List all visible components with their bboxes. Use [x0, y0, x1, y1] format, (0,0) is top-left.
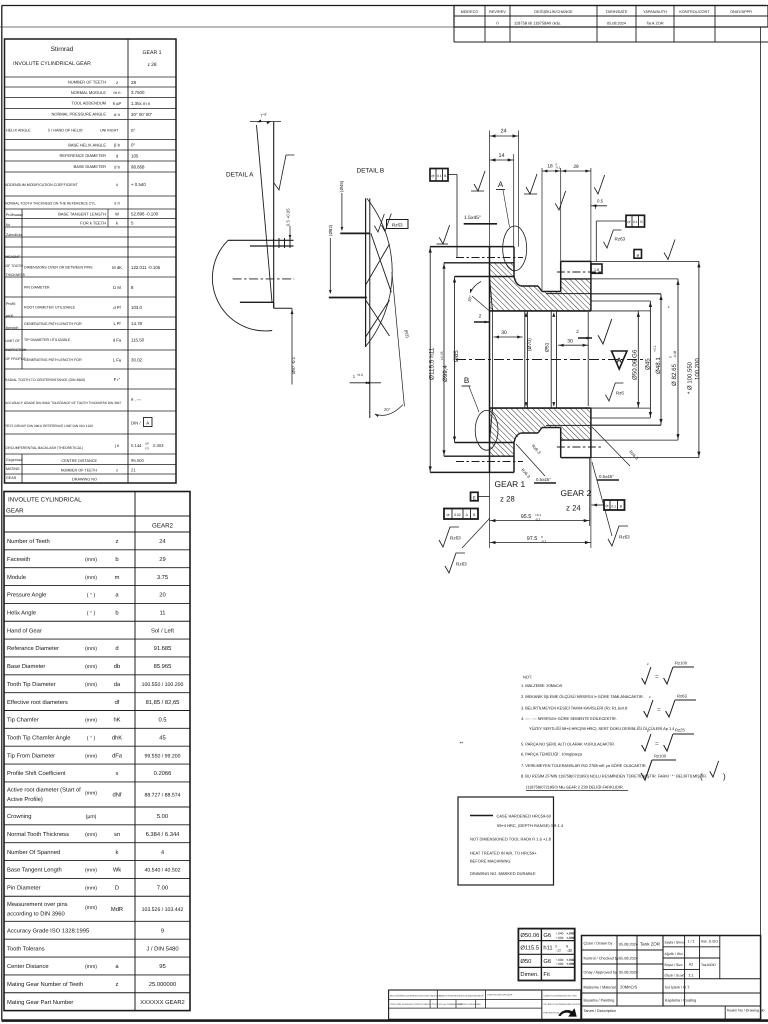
svg-text:20° 00' 00": 20° 00' 00" [131, 112, 153, 117]
svg-text:±0.05: ±0.05 [440, 351, 444, 360]
svg-text:Rz25: Rz25 [675, 728, 685, 733]
svg-text:+.009: +.009 [566, 962, 574, 966]
gear1 left face [489, 247, 491, 473]
svg-text:Tooth Tip Diameter: Tooth Tip Diameter [7, 681, 56, 688]
svg-text:Number of Teeth: Number of Teeth [7, 538, 50, 545]
detail A flank arc [212, 240, 272, 331]
svg-text:0.02: 0.02 [454, 513, 461, 517]
svg-text:Tarık ZOR: Tarık ZOR [646, 21, 664, 25]
svg-text:Kaplama / Coating: Kaplama / Coating [665, 999, 696, 1003]
svg-text:=: = [655, 674, 659, 681]
svg-text:20: 20 [159, 592, 165, 599]
svg-text:): ) [723, 772, 726, 781]
dim 14 [490, 159, 514, 161]
roughness checks top [474, 171, 485, 191]
svg-text:dFa: dFa [112, 752, 123, 759]
svg-text:dhK: dhK [112, 734, 122, 741]
svg-text:THICKNESS: THICKNESS [6, 273, 26, 277]
svg-text:b: b [115, 610, 118, 617]
svg-text:F r'': F r'' [114, 377, 121, 382]
svg-text:BEFORE MACHINING: BEFORE MACHINING [470, 859, 510, 864]
svg-text:+0.1: +0.1 [535, 513, 541, 517]
svg-text:GEAR: GEAR [6, 508, 24, 515]
svg-text:( ° ): ( ° ) [87, 593, 96, 599]
svg-text:5.00: 5.00 [157, 813, 168, 820]
svg-text:81,85 / 82,65: 81,85 / 82,65 [146, 699, 180, 706]
svg-text:0°: 0° [131, 143, 135, 148]
svg-text:2. MEKANİK İŞLEME ÖLÇÜSÜ NRSR': 2. MEKANİK İŞLEME ÖLÇÜSÜ NRSR'64 'e GÖRE… [521, 694, 644, 699]
svg-text:1.8: 1.8 [594, 268, 599, 272]
svg-text:XXXXXX GEAR2: XXXXXX GEAR2 [140, 999, 184, 1006]
svg-text:88.727 / 88.574: 88.727 / 88.574 [144, 792, 180, 798]
svg-text:+.009: +.009 [555, 962, 563, 966]
web line bottom [455, 442, 515, 444]
title block [582, 936, 761, 1020]
svg-text:-0.08: -0.08 [673, 351, 677, 358]
gear2 root line top [561, 278, 591, 280]
svg-text:A: A [498, 180, 504, 189]
svg-text:(mm): (mm) [85, 646, 97, 652]
svg-text:Tip Chamfer: Tip Chamfer [7, 717, 39, 724]
svg-text:99.550 / 99.200: 99.550 / 99.200 [144, 753, 180, 759]
svg-text:1:1: 1:1 [689, 973, 694, 977]
svg-text:Ø50: Ø50 [520, 958, 531, 965]
svg-text:6. PARÇA TEMİZLİĞİ : 10mg/parç: 6. PARÇA TEMİZLİĞİ : 10mg/parça [521, 752, 583, 757]
svg-text:z: z [647, 662, 649, 666]
svg-text:18: 18 [547, 164, 553, 170]
svg-text:Rz100: Rz100 [654, 754, 667, 759]
svg-text:Module: Module [7, 574, 26, 581]
svg-text:**: ** [460, 741, 464, 747]
dim 95.5 [490, 520, 590, 522]
fits table [518, 929, 574, 981]
svg-text:Çizen / Drawn by: Çizen / Drawn by [584, 942, 613, 946]
svg-text:45: 45 [159, 735, 165, 741]
svg-text:0.2066: 0.2066 [154, 770, 172, 777]
svg-text:GENERATING PATH LENGTH FOR: GENERATING PATH LENGTH FOR [24, 358, 82, 362]
datum box E [471, 492, 479, 501]
svg-text:OF TOOTH: OF TOOTH [6, 264, 24, 268]
svg-text:G6: G6 [543, 958, 551, 965]
svg-text:Ø51: Ø51 [545, 342, 551, 352]
svg-text:( ° ): ( ° ) [87, 735, 96, 741]
svg-text:+.009: +.009 [566, 936, 574, 940]
svg-text:ACCURACY GRADE DIN 3962/ TOLER: ACCURACY GRADE DIN 3962/ TOLERANCE OF TO… [5, 401, 121, 405]
svg-text:NORMAL MODULE: NORMAL MODULE [71, 90, 107, 95]
svg-text:REFERENCE DIAMETER: REFERENCE DIAMETER [60, 153, 107, 158]
svg-text:(: ( [700, 772, 703, 781]
svg-text:A2: A2 [689, 963, 693, 967]
svg-text:Fit: Fit [543, 971, 550, 978]
svg-text:Active Profile): Active Profile) [7, 796, 43, 803]
svg-text:KONTROL/CONT: KONTROL/CONT [679, 10, 710, 14]
svg-text:E: E [473, 495, 476, 500]
svg-text:BASE DIAMETER: BASE DIAMETER [74, 164, 107, 169]
svg-text:UP: UP [145, 442, 149, 446]
roughness equivalence 2 [644, 700, 653, 717]
detail A root line [240, 301, 274, 303]
svg-text:h11: h11 [543, 945, 552, 952]
svg-text:11: 11 [159, 611, 165, 617]
svg-text:14: 14 [499, 153, 505, 159]
svg-text:40.540 / 40.502: 40.540 / 40.502 [144, 868, 180, 874]
bore step lines [524, 311, 526, 408]
gear2 pitch centerline top [557, 271, 602, 273]
svg-text:4. — - — NRSR'64'e GÖRE SEMENT: 4. — - — NRSR'64'e GÖRE SEMENTE EDİLECEK… [521, 716, 617, 721]
svg-text:59+4 HRC, (DEPTH RANGE) 0.9-1.: 59+4 HRC, (DEPTH RANGE) 0.9-1.4 [497, 823, 564, 828]
svg-text:Tooth Tip Chamfer Angle: Tooth Tip Chamfer Angle [7, 734, 70, 741]
svg-text:Ø 82.65: Ø 82.65 [671, 363, 678, 386]
svg-text:GEAR: GEAR [6, 476, 17, 480]
svg-text:=: = [657, 707, 661, 714]
svg-text:PIN DIAMETER: PIN DIAMETER [24, 286, 50, 290]
svg-text:KONTROL EDİLMEMİŞ: KONTROL EDİLMEMİŞ [458, 1003, 482, 1006]
svg-text:Ø50.06 G6: Ø50.06 G6 [632, 349, 639, 380]
detail A tooth flank [273, 122, 275, 308]
main axis centerline [456, 359, 643, 361]
svg-text:DRAWING NO: DRAWING NO [72, 478, 97, 482]
svg-text:j n: j n [114, 443, 120, 448]
svg-text:prüf-: prüf- [6, 314, 15, 318]
svg-text:W: W [115, 212, 119, 217]
svg-text:z: z [116, 80, 118, 85]
svg-text:98.668: 98.668 [131, 164, 145, 169]
svg-text:(mm): (mm) [85, 964, 97, 970]
svg-text:24: 24 [159, 538, 166, 545]
svg-text:sn: sn [114, 832, 120, 838]
svg-text:Prüfmasse: Prüfmasse [6, 213, 23, 217]
gear2 left face bottom [560, 428, 562, 458]
dim Ø100.550/100.200 [698, 261, 700, 457]
svg-text:L Fa: L Fa [113, 357, 122, 362]
svg-text:0.5: 0.5 [597, 199, 604, 204]
gear2 tip ext to right dims [591, 260, 699, 262]
dim Ø99.4 [443, 263, 445, 456]
svg-text:Tanım / Description: Tanım / Description [584, 1009, 617, 1013]
Rz6 mark in bore right [605, 383, 623, 401]
svg-text:Resim No / Drawing No: Resim No / Drawing No [727, 1009, 765, 1013]
svg-text:TEST-GROUP DIN 3961/ REFERENCE: TEST-GROUP DIN 3961/ REFERENCE LINE DIN … [5, 424, 93, 428]
svg-text:Center Distance: Center Distance [7, 963, 49, 970]
gear1 tip line bottom [430, 471, 514, 473]
svg-text:NUMBER OF TEETH: NUMBER OF TEETH [61, 469, 97, 473]
svg-text:Mating Gear Number of Teeth: Mating Gear Number of Teeth [7, 981, 83, 988]
svg-text:z 24: z 24 [566, 504, 581, 513]
svg-text:95: 95 [159, 963, 165, 970]
svg-text:d: d [115, 645, 118, 652]
svg-text:30: 30 [501, 330, 507, 336]
svg-text:Rz6: Rz6 [616, 391, 624, 396]
svg-text:Tooth Tolerans: Tooth Tolerans [7, 945, 45, 952]
gdt frame bottom-left [444, 509, 478, 520]
svg-text:Helix Angle: Helix Angle [7, 610, 36, 617]
svg-text:103.526 / 103.442: 103.526 / 103.442 [142, 907, 184, 913]
small dark box left of gear2 bottom tip [591, 264, 602, 273]
svg-text:0.1: 0.1 [437, 174, 442, 178]
svg-text:=: = [655, 741, 659, 748]
svg-text:YÜZEY SERTLİĞİ 59+4 HRC(59 HRC: YÜZEY SERTLİĞİ 59+4 HRC(59 HRC), SERT DO… [529, 726, 675, 731]
svg-text:TÜM HAKLARI SAKLIDIR: TÜM HAKLARI SAKLIDIR [487, 994, 513, 997]
svg-text:according to DIN 3960: according to DIN 3960 [7, 910, 65, 917]
gear1 right face top [513, 247, 515, 277]
gear2 web line top [546, 293, 591, 295]
svg-text:Accuracy Grade ISO 1328:1995: Accuracy Grade ISO 1328:1995 [7, 927, 89, 934]
svg-text:z 28: z 28 [500, 495, 515, 504]
svg-text:05.08.2024: 05.08.2024 [607, 21, 626, 25]
svg-text:0°: 0° [131, 128, 135, 133]
revision table [454, 6, 768, 28]
svg-text:1. MALZEME: 20MnCr5: 1. MALZEME: 20MnCr5 [521, 683, 563, 688]
svg-text:Gegenrad: Gegenrad [6, 458, 22, 462]
web line top (Ø85) [455, 276, 515, 278]
part right face [590, 261, 592, 311]
svg-text:CIRCUMFERENTIAL BACKLASH (THEO: CIRCUMFERENTIAL BACKLASH (THEORETICAL) [5, 446, 83, 450]
svg-text:Mating Gear Part Number: Mating Gear Part Number [7, 999, 73, 1006]
svg-text:dNf: dNf [112, 791, 121, 798]
dim 97.5 [490, 542, 591, 544]
svg-text:d Fa: d Fa [113, 338, 122, 343]
svg-text:z: z [647, 729, 649, 733]
svg-text:DETAIL A: DETAIL A [226, 172, 254, 179]
svg-text:Ölçek / Scale: Ölçek / Scale [665, 974, 685, 978]
svg-text:Onay / Approved by: Onay / Approved by [584, 971, 617, 975]
svg-text:REV/REV: REV/REV [489, 10, 506, 14]
svg-text:A: A [617, 358, 622, 365]
svg-text:A: A [146, 421, 149, 426]
svg-text:Crowning: Crowning [7, 813, 32, 820]
svg-text:GEAR2: GEAR2 [152, 523, 174, 530]
svg-text:d b: d b [114, 164, 120, 169]
detail A tip chamfer lines [228, 239, 294, 241]
svg-text:(mm): (mm) [85, 718, 97, 724]
svg-text:Malzeme / Material: Malzeme / Material [584, 986, 616, 990]
bore bottom wall [490, 407, 591, 409]
svg-text:52.696 -0.100: 52.696 -0.100 [131, 212, 159, 217]
svg-text:91.685: 91.685 [154, 645, 172, 652]
svg-text:ADDENDUM MODIFICATION COEFFICI: ADDENDUM MODIFICATION COEFFICIENT [5, 183, 78, 187]
svg-text:20°: 20° [384, 407, 391, 412]
fillet gear1 to hub top [514, 277, 521, 287]
svg-text:(mm): (mm) [85, 886, 97, 892]
svg-text:95.000: 95.000 [131, 458, 144, 463]
svg-text:1.5x45°: 1.5x45° [464, 215, 481, 221]
svg-text:+.009: +.009 [555, 936, 563, 940]
svg-text:Ağırlık / Wei.: Ağırlık / Wei. [665, 952, 684, 956]
svg-text:NOT DIMENSIONED TOOL RADII R 1: NOT DIMENSIONED TOOL RADII R 1.6 +1.8 [470, 837, 552, 842]
svg-text:YAZILI İZİN OLMADAN ÇOĞALTILAM: YAZILI İZİN OLMADAN ÇOĞALTILAMAZ [390, 1003, 431, 1006]
svg-text:NORMAL PRESSURE ANGLE: NORMAL PRESSURE ANGLE [51, 112, 106, 117]
svg-text:100.200: 100.200 [694, 358, 701, 380]
detail B chamfer slants [371, 233, 391, 292]
svg-text:20MnCr5: 20MnCr5 [620, 985, 638, 990]
svg-text:-0.3: -0.3 [541, 539, 547, 543]
svg-text:HABER VERİLMEKSİZİN DEĞİŞTİRİL: HABER VERİLMEKSİZİN DEĞİŞTİRİLEBİLİR [439, 995, 484, 998]
gdt frame top-left [430, 169, 448, 182]
svg-text:hK: hK [113, 717, 120, 724]
svg-text:0.5x45°: 0.5x45° [536, 477, 551, 482]
svg-text:Ø115,5 h11: Ø115,5 h11 [429, 347, 436, 380]
svg-text:(Ø70): (Ø70) [527, 338, 533, 351]
svg-text:DETAIL B: DETAIL B [357, 168, 385, 175]
svg-text:5 / HAND OF HELIX:: 5 / HAND OF HELIX: [48, 129, 83, 133]
svg-text:Hand of Gear: Hand of Gear [7, 627, 42, 634]
svg-text:DIMENSIONS OVER OR BETWEEN PIN: DIMENSIONS OVER OR BETWEEN PINS [24, 266, 93, 270]
detail A root diameter dim [291, 308, 293, 384]
svg-text:Normal Tooth Thickness: Normal Tooth Thickness [7, 831, 69, 838]
detail A roughness mark [274, 155, 295, 190]
gear2 tip line bottom [561, 457, 591, 459]
svg-text:d Ff: d Ff [113, 305, 121, 310]
left face chamfer inner line [492, 308, 494, 411]
svg-text:Rz100: Rz100 [675, 661, 688, 666]
page border [2, 5, 767, 7]
dim Ø50.06 G6 [637, 311, 639, 408]
datum triangle A [612, 351, 628, 369]
svg-text:*: * [667, 306, 673, 308]
svg-text:İsıl İşlem / H.T.: İsıl İşlem / H.T. [665, 985, 690, 990]
svg-text:-.22: -.22 [555, 949, 561, 953]
svg-text:0: 0 [669, 356, 673, 358]
svg-text:YAPAN/AUTH: YAPAN/AUTH [643, 10, 667, 14]
svg-text:-.22: -.22 [566, 949, 572, 953]
dim Ø82.65 [677, 279, 679, 440]
gear2 root line bottom [561, 439, 591, 441]
dim 29 [561, 170, 591, 172]
svg-text:z 28: z 28 [147, 62, 156, 68]
mid hub top face [521, 285, 538, 287]
svg-text:MATING: MATING [6, 467, 20, 471]
svg-text:29: 29 [573, 164, 579, 170]
svg-text:ÇİZİM TOLERANSLARI ISO 2768: ÇİZİM TOLERANSLARI ISO 2768 [544, 995, 578, 998]
general roughness symbol [641, 760, 652, 780]
svg-text:M dK: M dK [112, 265, 122, 270]
svg-text:ISO 8015 TOLERANSLAMA ESASTIR: ISO 8015 TOLERANSLAMA ESASTIR [544, 1003, 582, 1006]
svg-text:Kontrol / Checked by: Kontrol / Checked by [584, 957, 619, 961]
svg-text:CENTRE DISTANCE: CENTRE DISTANCE [61, 459, 97, 463]
svg-text:14.78: 14.78 [131, 321, 143, 326]
svg-text:30: 30 [567, 338, 573, 344]
svg-text:DIN /: DIN / [131, 421, 141, 426]
svg-text:L Ff: L Ff [113, 321, 121, 326]
svg-text:Sayfa / Sheet: Sayfa / Sheet [665, 941, 685, 945]
svg-text:TARİH/DATE: TARİH/DATE [605, 9, 627, 14]
svg-text:Rz63: Rz63 [619, 535, 630, 540]
svg-text:BU DOKÜMAN ÜZERİNDEKİ BİLGİLER: BU DOKÜMAN ÜZERİNDEKİ BİLGİLER ÖNCEDEN [390, 995, 441, 998]
svg-text:(Ø45): (Ø45) [339, 180, 344, 192]
flag Rz63 bottom-left1 [439, 527, 459, 547]
svg-text:bereich: bereich [6, 326, 18, 330]
boxed Rz63 near gear1 top [381, 214, 391, 232]
svg-text:INSPECTION: INSPECTION [6, 348, 27, 352]
svg-text:Tip From Diameter: Tip From Diameter [7, 752, 55, 759]
svg-text:0.144: 0.144 [131, 443, 142, 448]
part section hatch bottom [490, 408, 591, 456]
svg-text:Ø48.1: Ø48.1 [655, 357, 662, 374]
svg-text:(mm): (mm) [85, 664, 97, 670]
svg-text:(mm): (mm) [85, 832, 97, 838]
gear2 web line bottom [546, 424, 591, 426]
svg-text:RADIAL TOOTH-TO-CENTERDISTANCE: RADIAL TOOTH-TO-CENTERDISTANCE (DIN 3960… [5, 378, 85, 382]
svg-text:β b: β b [114, 143, 121, 148]
svg-text:( ° ): ( ° ) [87, 611, 96, 617]
svg-text:* Ø 100.550: * Ø 100.550 [687, 361, 694, 394]
roughness equivalence 1 [642, 667, 651, 684]
svg-text:NORMAL TOOTH THICKNESS ON THE: NORMAL TOOTH THICKNESS ON THE REFERENCE … [5, 202, 96, 206]
svg-text:ROOT DIAMETER UTILIZABLE: ROOT DIAMETER UTILIZABLE [24, 306, 76, 310]
flag Rz63 bottom-left2 [445, 553, 465, 573]
svg-text:(mm): (mm) [85, 790, 97, 796]
svg-text:Pin Diameter: Pin Diameter [7, 885, 41, 892]
gear2 tip line top [561, 260, 591, 262]
svg-text:NOT:: NOT: [523, 675, 532, 680]
gear1 pitch centerline top [456, 257, 523, 259]
svg-text:b: b [115, 556, 118, 563]
svg-text:(mm): (mm) [85, 753, 97, 759]
svg-text:118758 idi 118758A0 oldu.: 118758 idi 118758A0 oldu. [514, 20, 561, 25]
svg-text:da: da [114, 681, 121, 688]
svg-text:0.5 +0.05: 0.5 +0.05 [286, 208, 291, 226]
gdt frame bottom-right [604, 500, 625, 510]
svg-text:CASE HARDENED HRC59-60: CASE HARDENED HRC59-60 [497, 814, 552, 819]
svg-text:103.0: 103.0 [131, 305, 143, 310]
svg-text:D: D [115, 886, 119, 892]
dim 18+-0.2 [542, 170, 561, 172]
svg-text:115.50: 115.50 [131, 338, 145, 343]
svg-text:0.1: 0.1 [633, 220, 638, 224]
svg-text:Boyama / Painting: Boyama / Painting [584, 999, 615, 1003]
svg-text:z: z [649, 695, 651, 699]
svg-text:7. VERİLMEYEN TOLERANSLAR ISO: 7. VERİLMEYEN TOLERANSLAR ISO 2768-mK ya… [521, 763, 647, 768]
svg-text:9: 9 [161, 927, 164, 934]
gdt frame top-right [626, 215, 645, 227]
svg-text:05.08.2024: 05.08.2024 [619, 957, 638, 961]
svg-text:85.965: 85.965 [154, 663, 172, 670]
svg-text:LIMIT OF: LIMIT OF [6, 339, 20, 343]
svg-text:z: z [116, 468, 118, 473]
svg-text:HELIX ANGLE: HELIX ANGLE [6, 129, 31, 133]
svg-text:GEAR 1: GEAR 1 [142, 50, 161, 56]
svg-text:122.011 -0.105: 122.011 -0.105 [131, 265, 161, 270]
slanted leaders bottom [516, 444, 545, 476]
dim 24 [490, 135, 519, 137]
svg-text:5. PARÇA NO ŞEKİL ALTI OLARAK: 5. PARÇA NO ŞEKİL ALTI OLARAK VURULACAKT… [521, 742, 615, 747]
svg-text:Active root diameter (Start of: Active root diameter (Start of [7, 786, 81, 793]
dim Ø85 [454, 277, 456, 443]
svg-text:NUMBER OF TEETH: NUMBER OF TEETH [68, 80, 106, 85]
svg-text:Ø85: Ø85 [453, 350, 460, 362]
svg-text:PROJEKSİYON: PROJEKSİYON [544, 1012, 560, 1015]
svg-text:Wk: Wk [113, 867, 121, 874]
svg-text:+0.1: +0.1 [653, 345, 657, 352]
dim Ø45 [649, 301, 651, 418]
dim 30 left [494, 336, 523, 338]
datum box a [634, 250, 642, 259]
svg-text:G6: G6 [543, 932, 551, 939]
svg-text:h aP: h aP [113, 101, 122, 106]
svg-text:105: 105 [131, 153, 139, 158]
svg-text:05.08.2024: 05.08.2024 [619, 971, 638, 975]
svg-text:Ø99,4: Ø99,4 [442, 365, 449, 382]
svg-text:-0.3: -0.3 [535, 517, 541, 521]
gear2 left face top [560, 261, 562, 291]
gear1 tip line top [430, 246, 514, 248]
svg-text:9 , —: 9 , — [131, 397, 142, 402]
gear2 data table [4, 492, 190, 1011]
detail B leader (R3) [392, 272, 405, 406]
svg-text:6.384 / 6.344: 6.384 / 6.344 [146, 831, 181, 838]
svg-text:(118758(0721950) Nlu GEAR 2 Z: (118758(0721950) Nlu GEAR 2 Z28 DELİĞİ F… [526, 785, 624, 790]
svg-text:TOOL ADDENDUM: TOOL ADDENDUM [71, 101, 106, 106]
